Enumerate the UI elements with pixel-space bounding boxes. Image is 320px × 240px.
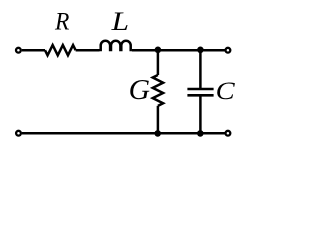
terminal bottom-left	[16, 131, 21, 136]
svg-text:R: R	[54, 9, 69, 36]
wire bottom rail	[22, 132, 225, 135]
wire C bottom lead	[199, 95, 202, 133]
wire G bottom lead	[157, 106, 160, 133]
capacitor C top plate	[187, 88, 213, 91]
node top of C branch	[197, 47, 204, 54]
wire G top lead	[157, 50, 160, 75]
wire between R and L	[76, 49, 100, 52]
resistor R	[45, 45, 76, 55]
inductor L	[101, 41, 131, 52]
wire top rail right of L	[132, 49, 225, 52]
wire top-left lead	[22, 49, 45, 52]
node top of G branch	[155, 47, 162, 54]
resistor G	[153, 75, 163, 106]
terminal bottom-right	[226, 131, 231, 136]
node bottom of C branch	[197, 130, 204, 137]
svg-text:G: G	[129, 74, 150, 106]
capacitor C bottom plate	[187, 94, 213, 97]
wire C top lead	[199, 50, 202, 89]
svg-text:C: C	[216, 78, 236, 105]
terminal top-left	[16, 48, 21, 53]
svg-text:L: L	[110, 7, 129, 36]
node bottom of G branch	[154, 130, 161, 137]
terminal top-right	[226, 48, 231, 53]
